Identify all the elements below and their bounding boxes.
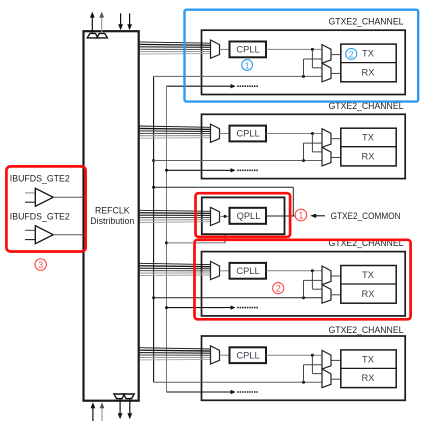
- svg-text:RX: RX: [362, 373, 375, 383]
- CPLL box ch1: [230, 42, 267, 58]
- dashed continuation ch3: [237, 307, 258, 309]
- junction qpll-refclk: [224, 215, 227, 218]
- wire QPLL clock into ch3: [154, 297, 322, 299]
- north in arrow 1 shaft: [120, 13, 122, 25]
- wire QPLL clock into ch1: [154, 75, 322, 77]
- north in arrow 2 head: [127, 24, 132, 30]
- north in arrow 2 shaft: [129, 13, 131, 25]
- south in arrow 2 shaft: [101, 407, 103, 421]
- wire refclk bundle ch2 line 6: [139, 137, 211, 140]
- annotation left arrow to common: [315, 215, 325, 217]
- arrowhead ch3: [231, 305, 236, 309]
- buffer IBUFDS_GTE2 no1 input stub a: [25, 192, 35, 194]
- svg-text:1: 1: [245, 61, 250, 71]
- south in arrow 1 head: [91, 402, 96, 408]
- wire south clock ch4: [167, 391, 232, 393]
- TX RX box ch3: [341, 266, 396, 304]
- svg-text:2: 2: [276, 284, 281, 294]
- arrowhead ch4: [231, 390, 236, 394]
- vertical QPLL-clock distribution wire A: [153, 76, 155, 382]
- svg-text:CPLL: CPLL: [236, 45, 259, 55]
- wire CPLL out ch4: [266, 354, 322, 356]
- wire branch to TX mux ch4: [303, 365, 305, 382]
- wire refclk bundle common line 4: [139, 217, 211, 219]
- wire branch to RX mux ch2: [311, 134, 313, 152]
- buffer IBUFDS_GTE2 no2 input stub a: [25, 229, 35, 231]
- TX clock mux ch3: [322, 266, 331, 285]
- wire QPLL clock into ch4: [154, 381, 322, 383]
- svg-text:CPLL: CPLL: [236, 266, 259, 276]
- svg-text:IBUFDS_GTE2: IBUFDS_GTE2: [10, 174, 70, 184]
- junction cpll-out ch2: [311, 132, 314, 135]
- wire refclk bundle ch4 line 5: [139, 356, 211, 358]
- south out arrow 1 head: [118, 413, 123, 419]
- svg-text:TX: TX: [362, 49, 374, 59]
- south in arrow 1 shaft: [92, 407, 94, 421]
- buffer IBUFDS_GTE2 no1: [35, 188, 53, 206]
- svg-text:RX: RX: [362, 67, 375, 77]
- wire refclk bundle common line 1: [139, 210, 211, 211]
- wire branch to TX mux ch2 h: [304, 142, 323, 144]
- svg-text:REFCLK: REFCLK: [95, 206, 130, 216]
- wire refclk bundle ch3 line 4: [139, 270, 211, 272]
- wire CPLL out ch2: [266, 133, 322, 135]
- wire branch to RX mux ch1 h: [312, 67, 322, 69]
- wire IBUFDS2 out: [53, 234, 83, 236]
- wire refclk bundle common line 3: [139, 214, 211, 216]
- TX clock mux ch2: [322, 129, 331, 148]
- wire IBUFDS1 out: [53, 196, 83, 198]
- wire refclk bundle ch4 line 4: [139, 354, 211, 356]
- wire branch to RX mux ch1: [311, 49, 313, 67]
- buffer IBUFDS_GTE2 no2: [35, 226, 53, 244]
- wire refclk bundle ch1 line 4: [139, 48, 211, 50]
- svg-text:QPLL: QPLL: [237, 211, 261, 221]
- wire RX mux out ch2: [331, 157, 341, 159]
- junction B qpll-mux link: [165, 241, 168, 244]
- wire branch to RX mux ch4 h: [312, 373, 322, 375]
- arrowhead ch1: [231, 84, 236, 88]
- REFCLK distribution box: [84, 31, 139, 401]
- junction A ch2: [152, 159, 155, 162]
- wire refclk bundle ch2 line 5: [139, 135, 211, 137]
- wire refclk bundle common line 2: [139, 212, 211, 215]
- wire TX mux out ch4: [331, 359, 341, 361]
- junction qpll-link ch2: [302, 159, 305, 162]
- annotation circled 1 red (GTXE2_COMMON): [295, 209, 307, 221]
- annotation circled 2 red (CPLL ch3): [273, 283, 284, 294]
- wire CPLL out ch1: [266, 48, 322, 50]
- wire refclk bundle ch4 line 3: [139, 352, 211, 355]
- svg-text:GTXE2_COMMON: GTXE2_COMMON: [331, 211, 401, 221]
- wire refclk bundle ch2 line 3: [139, 130, 211, 133]
- wire QPLL output riser horizontal: [154, 186, 294, 188]
- wire refclk bundle ch2 line 4: [139, 132, 211, 134]
- annotation circled 3 red (IBUFDS): [35, 259, 47, 271]
- wire refclk bundle ch1 line 2: [139, 43, 211, 46]
- junction cpll-out ch3: [311, 269, 314, 272]
- wire refclk bundle ch3 line 2: [139, 265, 211, 268]
- wire branch to RX mux ch4: [311, 355, 313, 373]
- junction qpll-link ch3: [302, 296, 305, 299]
- junction A qpll-riser: [152, 186, 155, 189]
- refclk mux ch3: [211, 261, 220, 279]
- vertical common-refclk distribution wire B: [166, 86, 168, 392]
- wire mux to CPLL ch4: [220, 354, 230, 356]
- refclk mux ch4: [211, 346, 220, 364]
- wire branch to TX mux ch3 h: [304, 279, 323, 281]
- wire branch to TX mux ch3: [303, 280, 305, 297]
- wire branch to RX mux ch3: [311, 271, 313, 289]
- annotation left arrowhead: [310, 214, 316, 218]
- south buffer 1: [114, 394, 125, 399]
- svg-text:TX: TX: [362, 133, 374, 143]
- svg-text:RX: RX: [362, 152, 375, 162]
- TX RX divider ch3: [341, 283, 396, 285]
- refclk mux common: [211, 207, 220, 225]
- wire mux to QPLL: [220, 215, 230, 217]
- annotation circled 2 blue (TX): [346, 48, 357, 59]
- wire refclk bundle ch4 line 6: [139, 358, 211, 361]
- wire refclk bundle common line 5: [139, 219, 211, 221]
- RX clock mux ch3: [322, 285, 331, 304]
- CPLL box ch4: [230, 347, 267, 363]
- wire refclk bundle ch4 line 1: [139, 348, 211, 349]
- svg-text:TX: TX: [362, 354, 374, 364]
- wire branch to TX mux ch4 h: [304, 364, 323, 366]
- wire branch to TX mux ch1 h: [304, 58, 323, 60]
- wire south clock ch1: [167, 85, 232, 87]
- svg-text:CPLL: CPLL: [236, 350, 259, 360]
- wire south clock ch3: [167, 307, 232, 309]
- refclk mux ch2: [211, 124, 220, 142]
- wire branch to RX mux ch2 h: [312, 151, 322, 153]
- TX RX box ch4: [341, 350, 396, 388]
- wire refclk bundle ch3 line 1: [139, 263, 211, 264]
- wire QPLL output riser vertical: [292, 187, 294, 216]
- wire TX mux out ch3: [331, 275, 341, 277]
- junction B ch3: [165, 306, 168, 309]
- GTXE2_CHANNEL block U4 box: [202, 336, 406, 400]
- highlight red box around IBUFDS buffers: [6, 166, 85, 251]
- wire QPLL out: [266, 215, 295, 217]
- south out arrow 2 shaft: [129, 399, 131, 415]
- south buffer 2: [124, 394, 135, 399]
- TX RX box ch2: [341, 128, 396, 166]
- wire refclk bundle ch1 line 5: [139, 51, 211, 53]
- QPLL box: [230, 208, 267, 224]
- wire refclk bundle ch1 line 6: [139, 53, 211, 56]
- dashed continuation ch4: [237, 391, 258, 393]
- highlight red box around channel 3: [195, 240, 411, 319]
- wire RX mux out ch1: [331, 72, 341, 74]
- svg-text:Distribution: Distribution: [90, 216, 134, 226]
- wire mux to CPLL ch1: [220, 48, 230, 50]
- arrowhead ch2: [231, 168, 236, 172]
- north out arrow 2 head: [99, 12, 104, 18]
- wire refclk bundle ch3 line 6: [139, 274, 211, 277]
- RX clock mux ch4: [322, 369, 331, 388]
- RX clock mux ch2: [322, 147, 331, 166]
- north buffer 1: [87, 33, 98, 38]
- buffer IBUFDS_GTE2 no2 input stub b: [25, 239, 35, 241]
- wire mux to CPLL ch2: [220, 133, 230, 135]
- refclk mux ch1: [211, 40, 220, 58]
- wire TX mux out ch1: [331, 54, 341, 56]
- south out arrow 2 head: [127, 413, 132, 419]
- wire refclk bundle ch3 line 3: [139, 267, 211, 270]
- TX clock mux ch4: [322, 350, 331, 369]
- junction B ch2: [165, 169, 168, 172]
- north out arrow 1 shaft: [91, 16, 93, 33]
- wire RX mux out ch4: [331, 378, 341, 380]
- wire refclk bundle ch2 line 2: [139, 127, 211, 130]
- wire branch to RX mux ch3 h: [312, 288, 322, 290]
- CPLL box ch2: [230, 126, 267, 142]
- junction qpll-link ch1: [302, 75, 305, 78]
- wire QPLL clock into ch2: [154, 160, 322, 162]
- RX clock mux ch1: [322, 63, 331, 82]
- CPLL box ch3: [230, 263, 267, 279]
- buffer IBUFDS_GTE2 no1 input stub b: [25, 201, 35, 203]
- wire branch to TX mux ch1: [303, 59, 305, 76]
- GTXE2_CHANNEL block U1 box: [202, 30, 406, 94]
- svg-text:3: 3: [38, 260, 43, 270]
- TX RX divider ch1: [341, 62, 396, 64]
- svg-text:CPLL: CPLL: [236, 129, 259, 139]
- north out arrow 2 shaft: [101, 16, 103, 33]
- GTXE2_CHANNEL block U2 box: [202, 114, 406, 178]
- wire RX mux out ch3: [331, 294, 341, 296]
- junction cpll-out ch4: [311, 354, 314, 357]
- svg-text:RX: RX: [362, 289, 375, 299]
- wire branch to TX mux ch2: [303, 143, 305, 160]
- south in arrow 2 head: [100, 402, 105, 408]
- junction qpll-link ch4: [302, 381, 305, 384]
- north in arrow 1 head: [118, 24, 123, 30]
- wire south clock ch2: [167, 169, 232, 171]
- north buffer 2: [97, 33, 108, 38]
- annotation circled 1 blue (CPLL): [242, 60, 253, 71]
- wire refclk bundle common line 6: [139, 221, 211, 224]
- svg-text:TX: TX: [362, 270, 374, 280]
- south out arrow 1 shaft: [119, 399, 121, 415]
- wire mux to CPLL ch3: [220, 270, 230, 272]
- highlight red box around QPLL common: [196, 193, 291, 237]
- wire refclk bundle ch1 line 1: [139, 42, 211, 43]
- GTXE2_CHANNEL block U3 box: [202, 252, 406, 316]
- TX clock mux ch1: [322, 45, 331, 64]
- highlight blue box around channel 1: [185, 10, 419, 102]
- svg-text:IBUFDS_GTE2: IBUFDS_GTE2: [10, 211, 70, 221]
- wire TX mux out ch2: [331, 138, 341, 140]
- GTXE2_COMMON block box: [202, 197, 285, 234]
- wire CPLL out ch3: [266, 270, 322, 272]
- svg-text:GTXE2_CHANNEL: GTXE2_CHANNEL: [329, 325, 404, 335]
- wire refclk bundle ch3 line 5: [139, 272, 211, 274]
- junction A ch3: [152, 296, 155, 299]
- svg-text:1: 1: [298, 211, 303, 221]
- north out arrow 1 head: [90, 12, 95, 18]
- svg-text:GTXE2_CHANNEL: GTXE2_CHANNEL: [329, 17, 404, 27]
- svg-text:2: 2: [349, 49, 354, 59]
- wire QPLL-mux link vertical: [224, 216, 226, 243]
- TX RX divider ch4: [341, 367, 396, 369]
- wire refclk bundle ch2 line 1: [139, 126, 211, 127]
- wire refclk bundle ch1 line 3: [139, 46, 211, 49]
- dashed continuation ch2: [237, 169, 258, 171]
- wire refclk bundle ch4 line 2: [139, 349, 211, 352]
- TX RX divider ch2: [341, 146, 396, 148]
- junction cpll-out ch1: [311, 48, 314, 51]
- dashed continuation ch1: [237, 85, 258, 87]
- TX RX box ch1: [341, 44, 396, 82]
- wire QPLL-mux link horizontal: [167, 242, 226, 244]
